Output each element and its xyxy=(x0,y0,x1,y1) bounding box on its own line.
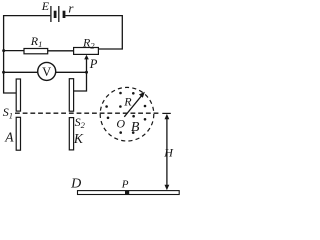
field dots B (out of page) xyxy=(105,92,146,134)
H arrowhead down xyxy=(165,185,170,190)
wire: left vertical + top to battery xyxy=(4,16,51,93)
node: junction on left wire at voltmeter branch xyxy=(2,71,5,74)
node: junction on left wire at R1 branch xyxy=(2,49,5,52)
plate K lower (slit S2 bottom) xyxy=(69,118,73,150)
wire: left wire to R1 xyxy=(4,50,24,52)
svg-text:R: R xyxy=(123,94,132,108)
svg-text:V: V xyxy=(42,65,51,79)
battery cell 2 short thick plate xyxy=(63,11,66,18)
field region dashed circle xyxy=(100,87,154,141)
screen D bar xyxy=(78,191,180,195)
wire: left wire to voltmeter xyxy=(4,71,38,73)
H arrowhead up xyxy=(165,114,170,119)
svg-text:H: H xyxy=(163,145,174,159)
resistor R1 box xyxy=(24,49,48,54)
wire: P junction down and left to plate K xyxy=(74,72,87,91)
voltmeter V xyxy=(38,62,56,80)
H dimension: double arrow shaft xyxy=(166,117,168,188)
svg-text:P: P xyxy=(121,178,129,190)
node: junction at P wiper xyxy=(85,71,88,74)
svg-text:B: B xyxy=(131,120,140,135)
battery E,r : cell 1 long plate xyxy=(50,6,52,22)
svg-text:A: A xyxy=(4,130,14,145)
beam axis dashed line xyxy=(15,112,160,114)
svg-text:E: E xyxy=(41,0,50,13)
rheostat R2 box xyxy=(74,48,99,55)
wire: battery right to top-right corner down to R2 xyxy=(65,16,122,49)
wiper arrow P of R2 xyxy=(84,55,89,72)
svg-text:P: P xyxy=(89,57,98,71)
wire: voltmeter to P junction xyxy=(56,71,87,73)
plate A lower (slit S1 bottom) xyxy=(16,117,20,150)
point P mark on screen xyxy=(125,190,129,194)
battery cell 1 short thick plate xyxy=(54,11,57,18)
svg-text:D: D xyxy=(70,177,81,192)
svg-text:O: O xyxy=(116,117,125,131)
plate K upper (slit S2 top) xyxy=(69,79,73,112)
svg-text:K: K xyxy=(73,131,84,146)
radius arrow R from O to rim xyxy=(124,95,142,117)
H dimension: top end bar xyxy=(162,112,171,114)
battery cell 2 long plate xyxy=(58,6,60,22)
plate A upper (slit S1 top) xyxy=(16,79,20,111)
wire: R1 to R2 xyxy=(48,50,74,52)
